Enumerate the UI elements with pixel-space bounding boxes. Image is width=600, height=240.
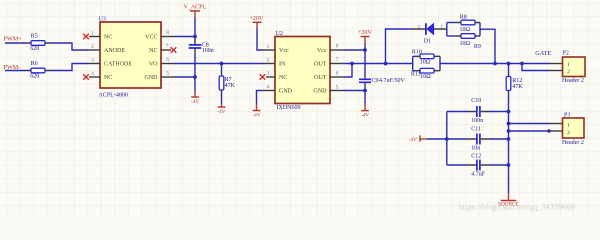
svg-text:VCC: VCC (145, 35, 157, 41)
wire U2 OUT bus (pin7 row) (344, 63, 413, 65)
node junction C10/SOURCE rail (507, 110, 511, 114)
power port SOURCE (498, 193, 518, 207)
wire -4V to cap rail (427, 138, 447, 140)
svg-text:6: 6 (336, 71, 339, 77)
pin 7 U2 (330, 57, 344, 63)
svg-text:ANODE: ANODE (104, 48, 125, 54)
svg-text:+20V: +20V (250, 16, 264, 22)
node junction P3 pin2 wire (547, 129, 550, 132)
svg-text:7: 7 (336, 57, 339, 63)
svg-text:3: 3 (267, 71, 270, 77)
svg-text:P3: P3 (564, 113, 570, 119)
pin 1 U2 (263, 44, 275, 50)
node junction pin8/+20V (363, 48, 367, 52)
svg-text:C10: C10 (471, 98, 481, 104)
capacitor C11 (447, 126, 509, 151)
svg-text:C12: C12 (471, 154, 481, 160)
wire U3 pin8 to rail (175, 36, 196, 38)
node junction pin5/C9 (363, 89, 367, 93)
svg-text:10Ω: 10Ω (420, 74, 431, 80)
svg-text:-4V: -4V (252, 112, 260, 118)
svg-text:Header 2: Header 2 (562, 140, 584, 146)
pin 2 U2 (263, 58, 275, 64)
svg-text:https://blog.csdn.net/qq_34329: https://blog.csdn.net/qq_34329669 (459, 203, 575, 212)
svg-text:ACPL-4800: ACPL-4800 (99, 93, 128, 99)
connector P3 (549, 113, 584, 146)
resistor R5 (26, 33, 50, 52)
pin 6 U3 (161, 57, 175, 63)
wire PWM- lead-in (5, 70, 26, 72)
capacitor C9 (359, 50, 406, 91)
capacitor C10 (447, 98, 509, 124)
node junction R8R9 drop (493, 62, 497, 66)
power port +20V (C9 rail) (358, 30, 372, 50)
svg-text:-4V: -4V (217, 109, 225, 115)
wire PWM+ lead-in (5, 42, 26, 44)
svg-text:PWM+: PWM+ (4, 36, 23, 43)
node junction R7 top (220, 62, 224, 66)
power -4V below R7 (217, 94, 225, 115)
svg-text:U3: U3 (99, 17, 106, 23)
svg-text:47K: 47K (512, 84, 523, 90)
wire P3 pin2 (509, 130, 550, 132)
svg-text:V_ACPL: V_ACPL (184, 4, 207, 10)
pin 8 U3 (161, 30, 175, 36)
capacitor C12 (447, 154, 509, 178)
svg-text:GND: GND (145, 75, 159, 81)
svg-text:NC: NC (104, 35, 112, 41)
wire V_ACPL rail down to pin8 (194, 18, 196, 37)
svg-text:2: 2 (267, 58, 270, 64)
wire GATE bus to P2 (440, 63, 549, 65)
node junction P3 pin2/rail (507, 129, 511, 133)
net label PWM+ (4, 36, 23, 43)
pin 8 U2 (330, 44, 344, 50)
svg-text:R10: R10 (412, 49, 422, 55)
svg-text:2: 2 (567, 130, 570, 136)
svg-text:R6: R6 (31, 61, 38, 67)
svg-text:R9: R9 (474, 44, 481, 50)
svg-text:GND: GND (314, 89, 328, 95)
svg-text:GND: GND (279, 89, 293, 95)
node junction pin5/rail (193, 75, 197, 79)
svg-text:6: 6 (166, 57, 169, 63)
svg-text:2: 2 (567, 69, 570, 75)
svg-text:OUT: OUT (314, 62, 327, 68)
node junction R12 top (507, 62, 511, 66)
svg-text:Vcc: Vcc (317, 48, 327, 54)
pin 5 U3 (161, 71, 175, 77)
wire +20V to U2 pin1 (257, 29, 263, 51)
svg-text:5: 5 (336, 85, 339, 91)
svg-text:C9: C9 (372, 78, 379, 84)
resistor R8 (parallel top) (447, 15, 480, 37)
wire U2 pin5 to C9 rail (344, 90, 366, 92)
resistor R6 (26, 61, 50, 79)
svg-text:PWM-: PWM- (4, 64, 21, 71)
svg-text:7: 7 (166, 44, 169, 50)
pin 4 U3 (83, 71, 100, 80)
svg-text:-4V: -4V (191, 99, 199, 105)
svg-text:C11: C11 (471, 126, 481, 132)
power -4V feed (caps) (409, 135, 427, 142)
op-amp U3 body (99, 17, 162, 99)
svg-text:R8: R8 (460, 15, 467, 21)
svg-text:+20V: +20V (358, 30, 372, 36)
diode D1 (412, 23, 447, 44)
svg-text:100n: 100n (471, 118, 483, 124)
svg-text:2: 2 (418, 24, 421, 30)
wire P2 pin2 branch (522, 64, 549, 71)
connector P2 (549, 51, 585, 84)
pin 5 U2 (330, 85, 344, 91)
svg-text:10Ω: 10Ω (420, 59, 431, 65)
pin 4 U2 (263, 85, 275, 91)
wire U3 pin5 to rail (175, 76, 196, 78)
svg-text:IN: IN (279, 62, 286, 68)
pin 1 U3 (83, 31, 100, 40)
svg-text:VO: VO (149, 62, 158, 68)
svg-text:100n: 100n (202, 48, 214, 54)
svg-text:P2: P2 (563, 51, 569, 57)
node junction -4V/rail (445, 137, 449, 141)
svg-text:4.7uF: 4.7uF (471, 171, 486, 177)
svg-text:NC: NC (104, 75, 112, 81)
wire cap left rail (446, 112, 448, 166)
svg-text:10Ω: 10Ω (460, 41, 471, 47)
power -4V below C9 (361, 91, 369, 119)
node junction C12/SOURCE rail (507, 163, 511, 167)
watermark (459, 203, 575, 212)
node junction C11/SOURCE rail (507, 137, 511, 141)
svg-text:D1: D1 (424, 39, 431, 45)
wire U2 GND drop (257, 91, 264, 105)
power -4V below U2 (252, 105, 260, 119)
net label PWM- (4, 64, 21, 71)
svg-text:Vcc: Vcc (279, 48, 289, 54)
svg-text:R11: R11 (411, 72, 421, 78)
svg-text:10n: 10n (471, 145, 480, 151)
wire D1 riser (386, 29, 413, 64)
resistor R10 (parallel top) (412, 49, 440, 70)
pin 6 U2 (330, 71, 344, 77)
power -4V below C8 rail (191, 77, 199, 105)
svg-text:2: 2 (91, 44, 94, 50)
svg-text:NC: NC (149, 48, 157, 54)
wire R6 to U3 pin3 (50, 64, 88, 71)
pin 3 U3 (88, 58, 100, 64)
pin 7 U3 (161, 44, 176, 53)
svg-text:-4V: -4V (409, 137, 417, 143)
svg-text:5: 5 (166, 71, 169, 77)
node junction pin6/pin7 (350, 62, 354, 66)
svg-text:IXDN609: IXDN609 (277, 105, 301, 111)
power port +20V (U2 Vcc) (250, 16, 264, 29)
node junction P3 pin1/rail (507, 122, 511, 126)
wire U3 VO to U2 IN (175, 63, 264, 65)
wire U2 pin8 to +20V node (344, 49, 366, 51)
op-amp U2 body (275, 31, 330, 111)
svg-text:4.7uF/50V: 4.7uF/50V (379, 78, 406, 84)
svg-text:8: 8 (166, 30, 169, 36)
node junction P2 branch (520, 62, 524, 66)
svg-text:4: 4 (267, 85, 270, 91)
svg-text:47K: 47K (225, 83, 236, 89)
resistor R7 (219, 64, 235, 95)
svg-text:CATHODE: CATHODE (104, 62, 132, 68)
wire SOURCE rail (508, 95, 510, 194)
capacitor C8 (189, 37, 214, 78)
svg-text:R5: R5 (31, 33, 38, 39)
svg-text:10Ω: 10Ω (460, 27, 471, 33)
svg-text:NC: NC (279, 75, 287, 81)
resistor R9 (parallel bottom) (447, 23, 481, 51)
svg-text:GATE: GATE (535, 50, 551, 57)
resistor R12 (506, 64, 523, 95)
svg-text:1: 1 (567, 122, 570, 128)
svg-text:4: 4 (91, 71, 94, 77)
svg-text:-4V: -4V (361, 113, 369, 119)
pin 2 U3 (88, 44, 100, 50)
svg-text:3: 3 (91, 58, 94, 64)
svg-text:1: 1 (567, 62, 570, 68)
wire R8R9 to GATE row (480, 29, 495, 63)
svg-text:U2: U2 (276, 31, 283, 37)
svg-text:8: 8 (336, 44, 339, 50)
svg-text:1: 1 (267, 44, 270, 50)
pin 3 U2 (260, 71, 275, 80)
node junction pin8/rail (193, 35, 197, 39)
svg-text:1: 1 (91, 31, 94, 37)
svg-text:620: 620 (30, 46, 39, 52)
svg-text:Header 2: Header 2 (562, 78, 584, 84)
svg-text:1: 1 (440, 24, 443, 30)
resistor R11 (parallel bottom) (411, 56, 440, 80)
svg-text:OUT: OUT (314, 75, 327, 81)
net label GATE (535, 50, 551, 57)
svg-text:620: 620 (30, 74, 39, 80)
wire P3 pin1 (509, 123, 550, 125)
wire U2 pin6 riser (344, 64, 353, 78)
wire R5 to U3 pin2 (50, 43, 88, 50)
power port V_ACPL (184, 4, 207, 17)
node junction D1 riser (384, 62, 388, 66)
